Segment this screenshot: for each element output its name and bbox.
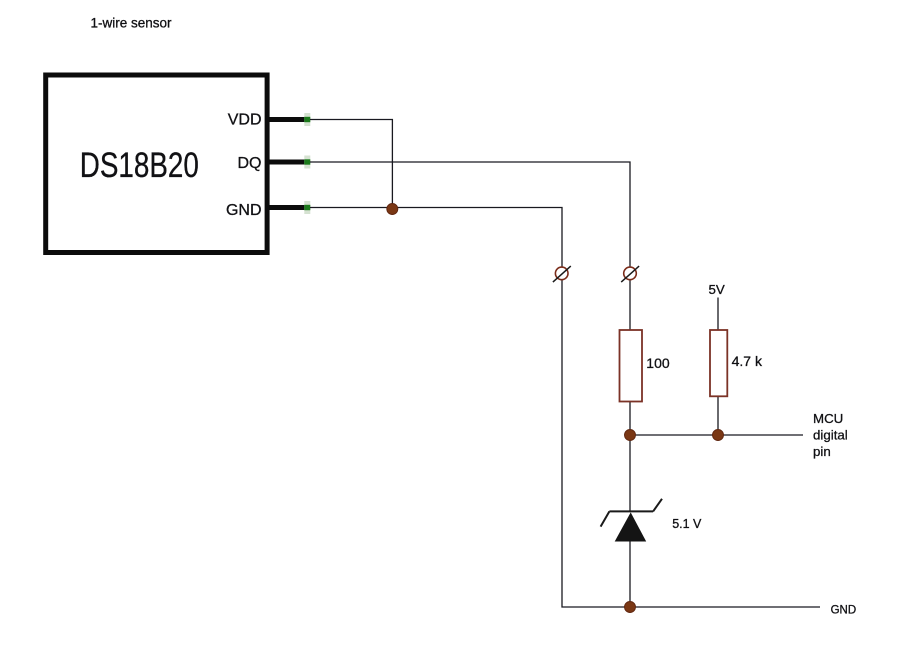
wire GND vertical down and bottom rail [562,280,820,607]
junction dot R2 bottom [713,430,724,441]
wire R2 bottom to junction [717,396,719,435]
junction dot bottom rail [625,602,636,613]
svg-text:100: 100 [646,355,670,371]
wire zener anode to bottom rail [629,542,631,608]
wire MCU digital pin [630,434,803,436]
junction dot VDD-GND [387,204,398,215]
svg-text:5V: 5V [709,282,725,297]
pin GND stub [265,205,310,210]
pin VDD pad [304,113,310,126]
svg-text:GND: GND [226,202,262,219]
no-connect symbol on DQ branch [621,266,639,282]
resistor R2 4.7k [710,330,727,396]
svg-text:4.7 k: 4.7 k [732,353,763,369]
svg-text:VDD: VDD [228,112,262,129]
svg-text:1-wire sensor: 1-wire sensor [91,16,173,31]
svg-text:5.1 V: 5.1 V [672,517,702,531]
wire GND horizontal [310,208,562,267]
svg-text:DQ: DQ [238,155,262,172]
junction dot R1 bottom [625,430,636,441]
svg-text:pin: pin [813,444,831,459]
resistor R1 100 [620,330,643,402]
wire DQ horizontal+vertical [310,162,630,267]
wire VDD to GND junction [310,120,392,210]
svg-text:MCU: MCU [813,411,843,426]
pin DQ pad [304,156,310,169]
no-connect symbol on GND branch [553,266,571,282]
svg-text:digital: digital [813,427,848,442]
pin GND pad [304,201,310,214]
wire DQ below no-connect to resistor R1 [629,280,631,330]
component U1 DS18B20 sensor box [46,75,267,253]
pin VDD stub [265,117,310,122]
wire R1 bottom to zener top [629,402,631,511]
zener diode D1 5.1V [601,499,662,542]
wire 5V to resistor R2 [717,298,719,331]
svg-text:DS18B20: DS18B20 [80,146,199,185]
svg-text:GND: GND [831,605,857,617]
pin DQ stub [265,160,310,165]
